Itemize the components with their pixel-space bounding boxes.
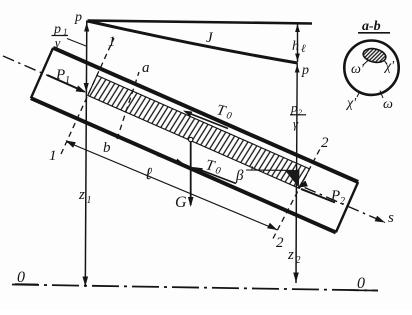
svg-text:2: 2 [340,196,345,207]
svg-text:1: 1 [49,148,57,164]
svg-text:z: z [287,247,294,263]
leader chi [357,91,360,97]
s axis arrowhead [375,216,385,223]
svg-text:ω: ω [383,97,393,112]
svg-text:G: G [175,194,187,211]
vertical line at section 1 (p/gamma + z1) [85,21,87,288]
svg-text:0: 0 [357,275,365,292]
svg-text:s: s [388,210,394,226]
svg-text:1: 1 [65,75,70,86]
svg-text:2: 2 [276,235,284,251]
z2 vertical line [295,185,297,283]
svg-text:h: h [292,39,299,54]
svg-text:γ: γ [293,116,299,131]
up arrow on section1 vertical [84,23,89,32]
svg-text:b: b [103,140,111,156]
leader omega-prime [363,61,368,66]
svg-text:2: 2 [298,108,302,117]
svg-text:ℓ: ℓ [301,43,306,55]
svg-text:ω': ω' [351,62,365,77]
svg-text:a: a [142,60,150,76]
pipe right end cap [336,182,358,232]
hatched control volume (cylinder side view) [88,75,310,188]
svg-text:P: P [55,67,65,83]
svg-text:z: z [78,187,85,203]
leader omega [380,91,383,99]
svg-text:2: 2 [296,255,301,266]
svg-text:2: 2 [321,135,329,151]
section line 1-1 [61,38,114,154]
section line 2-2 [273,147,321,239]
P1 pressure arrow [48,75,84,91]
svg-text:ℓ: ℓ [145,164,152,183]
svg-text:1: 1 [108,34,116,50]
total head horizontal line [88,21,313,24]
svg-text:p: p [290,100,298,115]
pipe axis dash-dot centerline [3,56,385,223]
pipe left end cap [31,48,53,98]
P2 pressure arrow [301,189,335,203]
l dimension line [67,142,277,230]
svg-text:a-b: a-b [362,19,381,34]
h_l vertical segment [297,23,299,62]
G gravity line with centroid circle [189,137,193,141]
svg-text:β: β [235,168,244,184]
svg-text:p: p [301,63,309,78]
pipe bottom wall [31,98,336,232]
inset hatched ellipse omega-prime [362,47,387,65]
datum line O-O dash-dot [12,285,378,291]
svg-text:γ: γ [55,35,61,50]
leader chi-prime inside [385,61,388,64]
piezometric line J [88,21,298,63]
svg-text:χ': χ' [345,96,357,111]
beta shaded wedge [286,170,300,188]
pipe top wall [53,48,358,182]
inset circle: pipe cross-section omega [344,40,398,94]
p2/gamma vertical segment [296,63,299,185]
svg-text:p: p [74,10,82,25]
section line a-b [117,72,139,139]
leader from p1/gamma to vertical [67,39,86,47]
svg-text:1: 1 [87,195,92,206]
beta angle horizontal reference [246,169,294,171]
z1 down arrow at datum [83,277,89,287]
T0 shear arrow (top, under top wall) [186,112,228,129]
T0 shear arrow (bottom, above bottom wall) [157,155,182,164]
down arrow to axis at section 1 [84,83,89,92]
svg-text:P: P [330,188,340,204]
